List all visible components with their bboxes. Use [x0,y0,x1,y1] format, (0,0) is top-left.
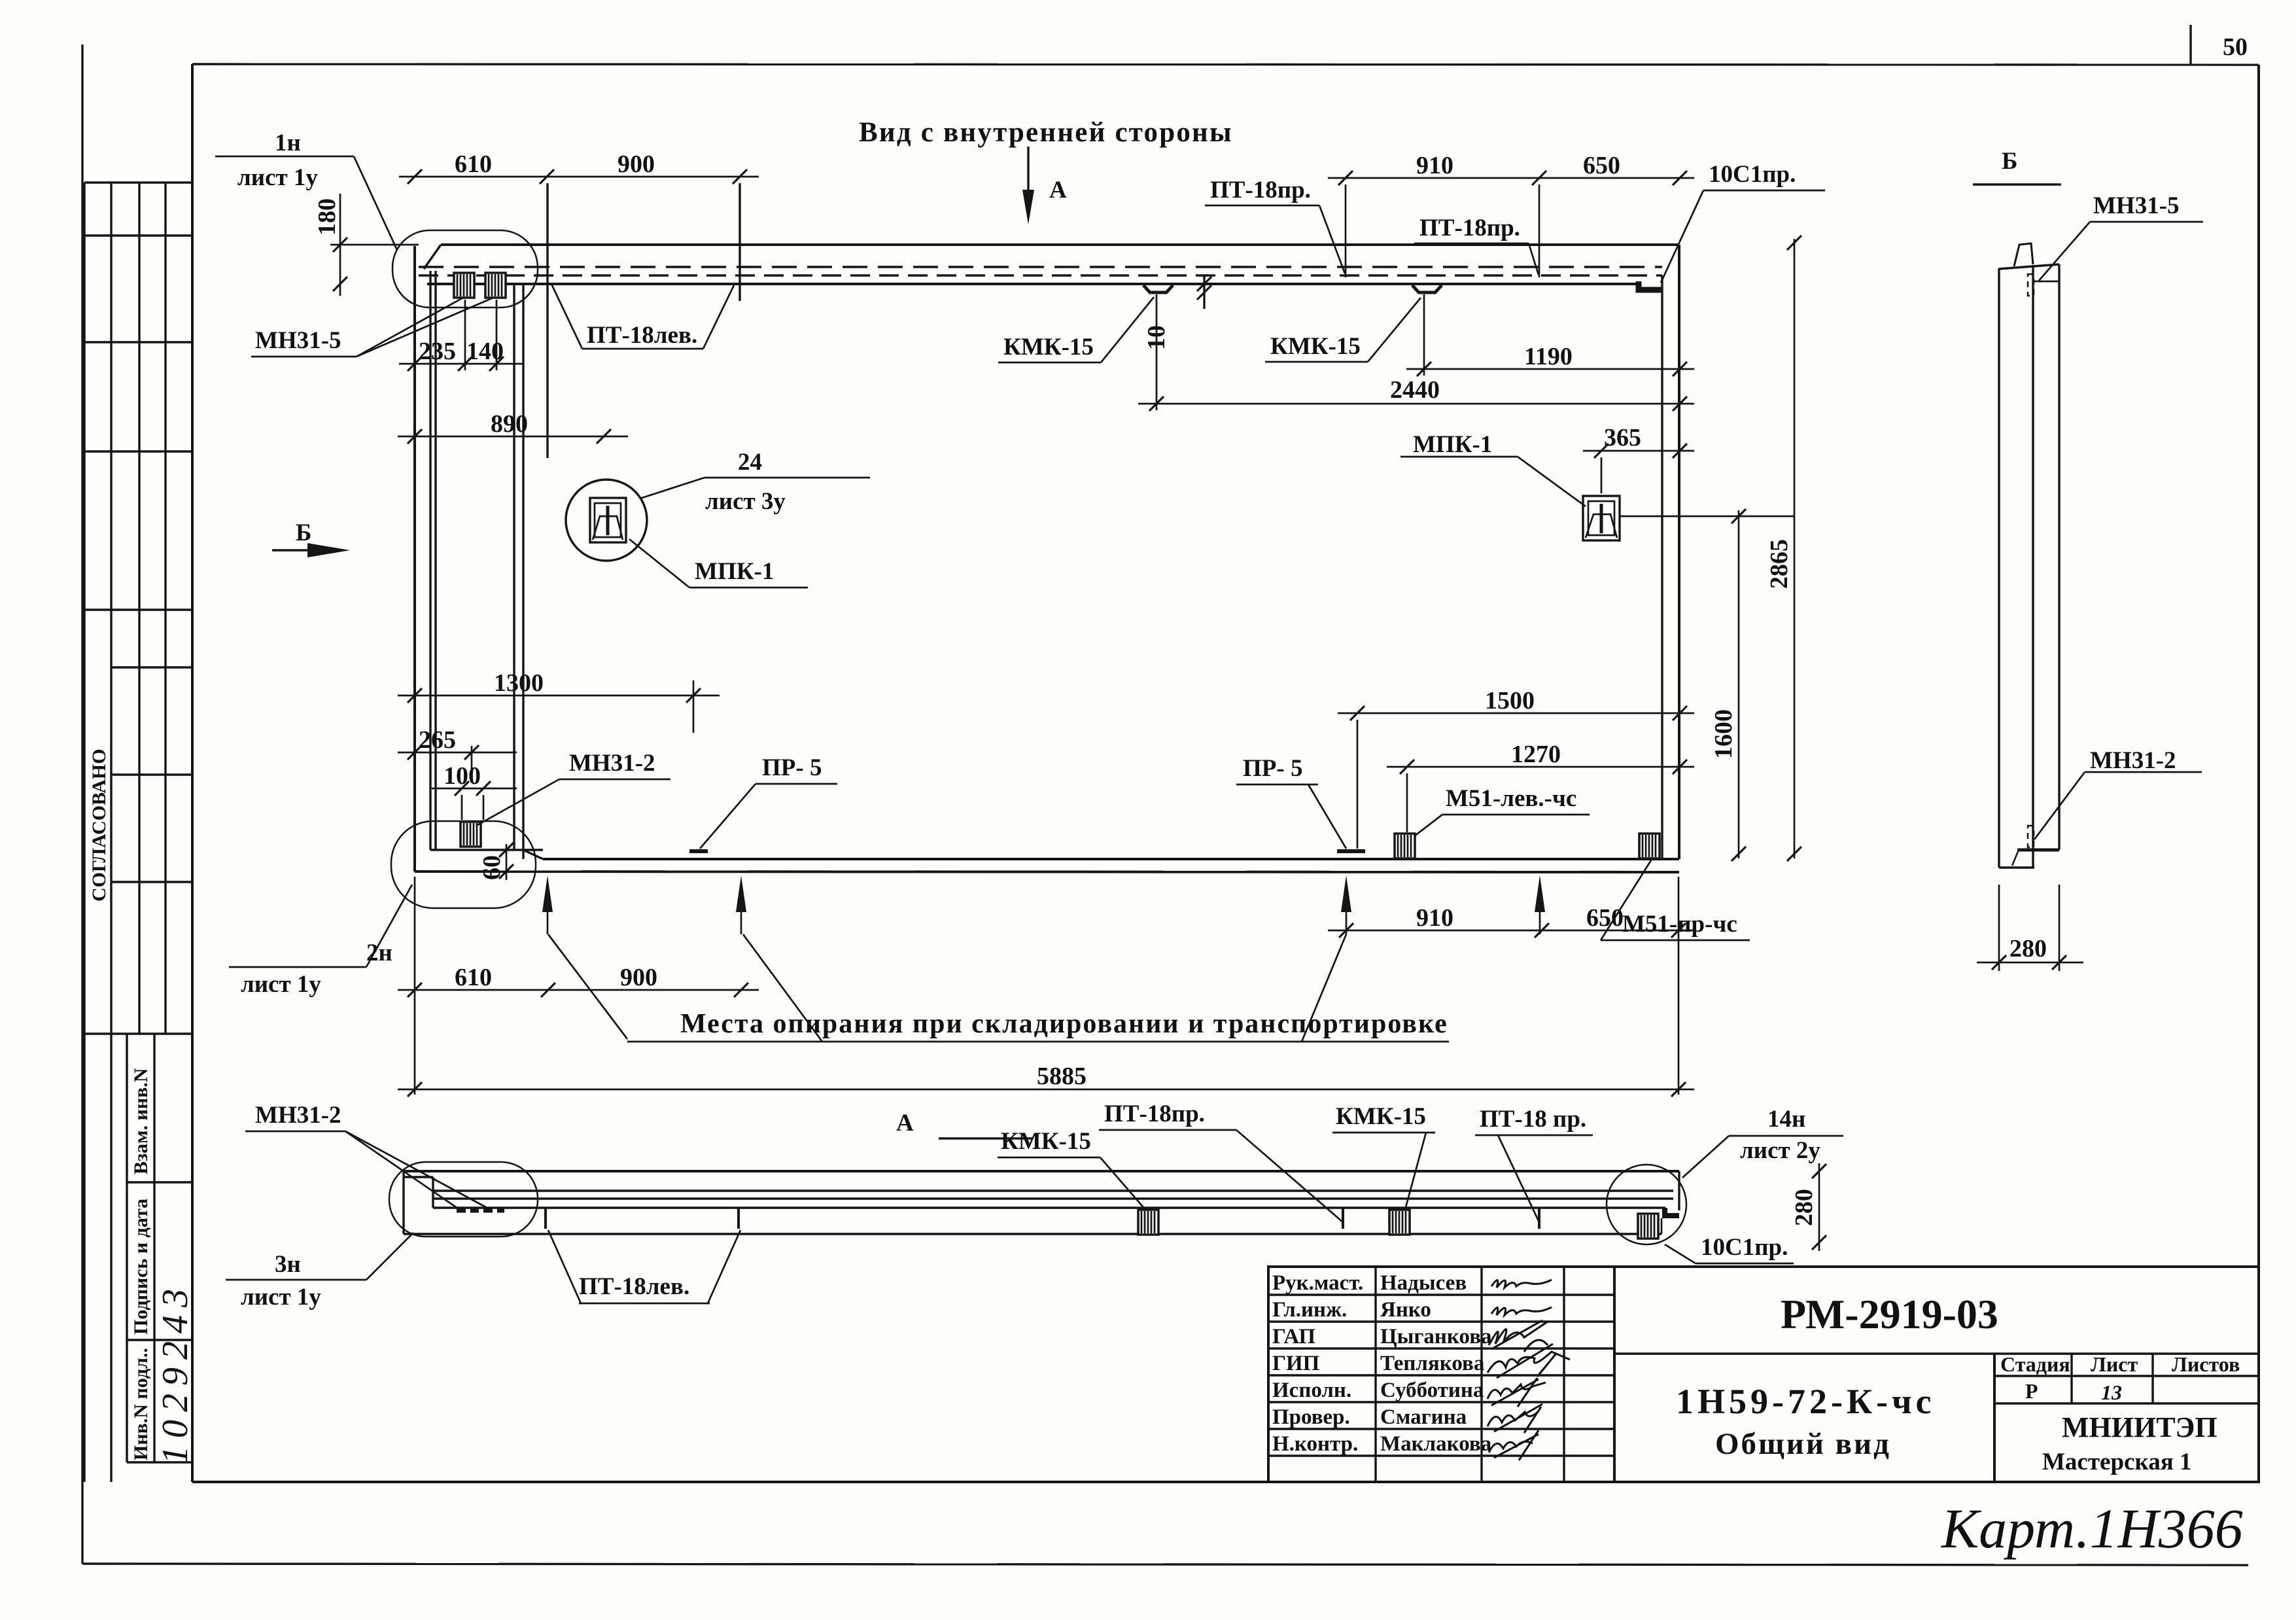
side element bottom [1999,866,2034,868]
corner inner horizontal [404,1176,433,1178]
label МПК-1 right [1400,431,1586,506]
support arrow 1 [542,875,553,934]
svg-text:Б: Б [296,519,311,546]
svg-text:280: 280 [1790,1189,1818,1226]
svg-text:лист 1у: лист 1у [241,971,321,998]
svg-text:1029243: 1029243 [155,1281,196,1464]
svg-text:ПТ-18пр.: ПТ-18пр. [1104,1101,1205,1127]
support arrow 2 [736,875,746,934]
svg-text:10С1пр.: 10С1пр. [1701,1234,1788,1261]
dim 280 right of strip [1790,1163,1826,1251]
svg-text:365: 365 [1604,424,1641,451]
label КМК-15 bottom view 1 [998,1128,1146,1210]
svg-text:МПК-1: МПК-1 [1413,431,1492,458]
svg-text:Лист: Лист [2091,1352,2138,1376]
panel top band bottom line [427,283,1639,285]
КМК-15 notch left [1143,285,1173,292]
extension line through band at 610 [546,183,548,458]
svg-text:650: 650 [1583,152,1620,179]
svg-text:КМК-15: КМК-15 [1001,1128,1091,1155]
lower stamp group box [126,1034,128,1462]
svg-text:Мастерская 1: Мастерская 1 [2042,1449,2191,1475]
svg-text:235: 235 [419,338,456,365]
svg-text:1270: 1270 [1511,741,1561,768]
dim 280 bottom [1977,885,2083,971]
svg-text:610: 610 [455,150,492,178]
main view [215,117,1825,1097]
svg-text:Листов: Листов [2172,1352,2240,1376]
dim 890 [398,410,628,444]
svg-text:А: А [1049,177,1067,203]
outer bottom edge [82,1564,2248,1565]
10 offset tick [1203,275,1205,309]
label МН31-2 right [2034,747,2202,839]
horizontal line from МПК-1 to 1600 dim [1620,516,1794,518]
svg-text:910: 910 [1416,904,1453,932]
balloon bottom-left corner 2н [391,821,536,908]
svg-text:Вид с внутренней стороны: Вид с внутренней стороны [859,117,1233,148]
signatures squiggles [1487,1280,1570,1460]
label ПТ-18пр second [1414,215,1539,275]
balloon top-left corner 1н [392,230,538,308]
dim 180 [313,194,419,296]
sidebar stamp grid columns [83,183,85,1482]
hidden dashed line lower [419,274,1662,276]
panel right edge outer [1678,245,1680,859]
svg-text:1Н59-72-К-чс: 1Н59-72-К-чс [1676,1382,1936,1421]
svg-text:ПР- 5: ПР- 5 [762,754,822,781]
svg-text:1н: 1н [275,130,301,156]
svg-text:Б: Б [2002,148,2017,175]
strip top line [404,1170,1679,1172]
label 14н лист 2у [1682,1106,1843,1178]
drawing frame bottom [192,1481,2259,1483]
sidebar stamp grid rows partial [111,666,192,668]
dim 1300 [398,669,720,733]
leader from arrow2 to text [743,934,822,1042]
svg-text:Карт.1Н366: Карт.1Н366 [1940,1497,2243,1560]
МПК-1 anchor right [1583,496,1620,540]
dim 235 140 [399,300,523,371]
side element right edge [2058,264,2060,850]
label МН31-2 bottom view [245,1102,492,1210]
side view [1973,148,2203,971]
dim 60 step [478,843,513,880]
drawing frame top [192,64,2259,65]
svg-text:2865: 2865 [1765,539,1793,589]
section arrow A (down) [1027,147,1029,196]
rib bottom step diagonal [523,850,543,859]
svg-text:ПТ-18лев.: ПТ-18лев. [579,1273,689,1300]
svg-text:МН31-5: МН31-5 [255,327,341,354]
anchor in balloon 10С1пр [1638,1214,1658,1239]
left rib bottom [430,849,543,851]
svg-text:М51-пр-чс: М51-пр-чс [1622,911,1737,938]
svg-text:ПТ-18пр.: ПТ-18пр. [1419,215,1520,241]
svg-text:лист 1у: лист 1у [237,164,318,191]
svg-text:890: 890 [491,410,528,438]
svg-text:КМК-15: КМК-15 [1003,334,1094,361]
dashed МН31-2 anchor [2028,826,2034,847]
svg-text:60: 60 [478,855,506,880]
side element left edge [1998,268,2000,868]
panel bottom edge [543,858,1679,860]
detail circle 24 лист 3у [566,480,647,561]
staff table verticals [1374,1267,1376,1482]
svg-text:Смагина: Смагина [1380,1405,1467,1429]
svg-text:ПТ-18пр.: ПТ-18пр. [1210,177,1311,203]
marker Б top [1973,148,2061,185]
svg-text:Провер.: Провер. [1272,1405,1350,1429]
staff table rows [1268,1294,1614,1295]
МН31-2 anchor bottom left [461,822,481,847]
svg-text:лист 1у: лист 1у [241,1284,321,1311]
dim 1600 vertical [1710,509,1746,861]
label 24 лист 3у [640,449,870,515]
bottom view [226,1101,1843,1311]
svg-text:МПК-1: МПК-1 [695,558,774,585]
label КМК-15 bottom view 2 [1332,1103,1435,1210]
svg-text:140: 140 [466,338,504,365]
left rib line c [513,284,515,850]
right corner of strip [1661,1171,1679,1234]
balloon 3н bottom view [389,1162,538,1237]
label 10С1пр bottom [1665,1234,1794,1263]
svg-text:1300: 1300 [494,669,544,697]
svg-text:50: 50 [2223,33,2248,61]
svg-text:Гл.инж.: Гл.инж. [1272,1298,1347,1322]
dim 910 650 bottom [1328,877,1694,1095]
svg-text:Стадия: Стадия [2000,1352,2070,1376]
dim 2865 vertical [1765,236,1801,861]
title block outline [1268,1267,2259,1482]
dim 1190 [1406,294,1694,376]
support arrow 3 [1341,875,1351,934]
svg-text:Теплякова: Теплякова [1380,1352,1484,1375]
svg-text:КМК-15: КМК-15 [1336,1103,1426,1130]
dashed anchor bar 2 [483,1207,504,1213]
panel top edge line [441,243,1679,246]
leader from arrow1 to text [548,934,627,1039]
strip left edge [402,1171,404,1234]
svg-text:610: 610 [455,964,492,991]
svg-text:13: 13 [2101,1381,2122,1404]
ПТ-18пр stroke 1 [1342,1208,1344,1229]
strip inner line a [433,1189,1673,1191]
panel right edge inner [1661,275,1663,859]
svg-text:14н: 14н [1767,1106,1805,1133]
staff roles [1272,1271,1492,1456]
svg-text:2440: 2440 [1390,376,1440,404]
svg-text:Места опирания при складирован: Места опирания при складировании и транс… [680,1009,1448,1039]
svg-text:СОГЛАСОВАНО: СОГЛАСОВАНО [88,748,110,902]
title block [1268,1267,2259,1560]
section marker Б left [272,519,350,557]
МН31-5 anchor 1 [454,273,474,298]
label МН31-5 [251,298,493,357]
svg-text:РМ-2919-03: РМ-2919-03 [1781,1291,1998,1337]
lifting loop on top [2014,243,2033,266]
dim 265 [398,726,517,782]
top right corner notch 10С1пр [1639,281,1662,290]
label МН31-5 right [2038,192,2203,281]
text места опирания [627,1009,1449,1042]
dim 610 900 top [399,150,759,184]
label ПТ-18пр bottom view 1 [1099,1101,1343,1222]
balloon 14н circle [1607,1165,1686,1244]
svg-text:280: 280 [2009,935,2047,962]
svg-text:КМК-15: КМК-15 [1270,333,1361,360]
svg-text:Цыганкова: Цыганкова [1380,1325,1492,1348]
svg-text:А: А [896,1110,914,1136]
svg-text:1600: 1600 [1710,709,1737,759]
ПТ-18лев stroke 2 [737,1208,740,1229]
svg-text:ГАП: ГАП [1272,1325,1315,1348]
bottom left slant [2012,850,2019,866]
svg-text:900: 900 [620,964,657,991]
svg-text:Р: Р [2025,1379,2038,1403]
svg-text:ПТ-18лев.: ПТ-18лев. [587,322,697,349]
panel bottom ledge [415,872,1679,872]
strip bottom line [404,1233,1661,1235]
label МПК-1 left [629,539,808,588]
label ПТ-18лев [551,284,734,349]
top-left corner bevel [424,245,441,269]
ПТ-18лев stroke 1 [544,1208,547,1229]
svg-text:3н: 3н [275,1251,301,1278]
dashed МН31-5 anchor [2028,274,2034,296]
extension line at 610+900 [739,183,740,301]
page number 50 [2189,25,2191,65]
svg-text:100: 100 [444,762,481,790]
dim 910 650 top right [1328,152,1694,277]
КМК-15 anchor bottom view [1138,1210,1158,1235]
svg-text:Маклакова: Маклакова [1380,1432,1491,1456]
svg-text:265: 265 [419,726,456,754]
dashed anchor bar 1 [457,1207,479,1213]
МН31-5 anchor 2 [485,273,506,298]
panel left edge [413,246,416,872]
svg-text:Взам. инв.N: Взам. инв.N [130,1068,152,1174]
svg-text:МН31-2: МН31-2 [569,750,655,777]
label ПТ-18пр first [1205,177,1345,273]
dim 2440 [1138,294,1694,411]
label ПР-5 left [689,754,837,851]
svg-text:180: 180 [313,198,341,236]
svg-text:ПТ-18 пр.: ПТ-18 пр. [1480,1106,1586,1133]
support arrow 4 [1535,875,1545,934]
svg-text:Исполн.: Исполн. [1272,1379,1351,1402]
label М51-пр-чс [1601,860,1750,940]
dim 1270 [1387,741,1694,832]
strip inner line b [433,1197,1673,1199]
МПК-1 anchor left [590,498,626,542]
ПТ-18пр stroke 2 [1538,1208,1540,1229]
svg-text:1190: 1190 [1524,343,1573,370]
svg-text:Рук.маст.: Рук.маст. [1272,1271,1363,1295]
svg-text:Инв.N подл..: Инв.N подл.. [130,1348,152,1460]
svg-text:910: 910 [1416,152,1453,179]
label 3н лист 1у [226,1233,413,1311]
svg-text:ГИП: ГИП [1272,1352,1320,1375]
outer left edge [81,44,83,1564]
svg-text:1500: 1500 [1485,687,1535,714]
svg-text:650: 650 [1586,904,1624,932]
leader from arrow3 to text [1302,934,1346,1042]
strip inner line c [433,1206,1665,1208]
label КМК-15 left [998,297,1154,362]
svg-text:МНИИТЭП: МНИИТЭП [2062,1411,2218,1443]
М51-пр anchor [1639,834,1660,858]
svg-text:Подпись и дата: Подпись и дата [130,1199,152,1335]
svg-text:Н.контр.: Н.контр. [1272,1432,1358,1456]
svg-text:МН31-2: МН31-2 [255,1102,341,1129]
dim 365 [1583,424,1694,493]
svg-text:лист 3у: лист 3у [705,488,786,515]
label 10С1пр [1661,161,1825,283]
divider under doc number [1614,1352,2259,1354]
svg-text:МН31-2: МН31-2 [2090,747,2176,774]
svg-text:900: 900 [617,150,655,178]
label 1н лист 1у [215,130,397,250]
left rib line b [434,271,436,850]
side rib bottom thick [2017,849,2059,852]
svg-text:Надысев: Надысев [1380,1271,1467,1295]
svg-text:5885: 5885 [1037,1063,1087,1090]
left sidebar [84,183,196,1482]
marker А bottom view [896,1110,1032,1138]
ПТ-18лев label trapezoid [548,1230,740,1303]
svg-text:лист 2у: лист 2у [1740,1137,1820,1164]
left rib line d [522,284,524,859]
label ПР-5 right [1236,755,1365,851]
svg-text:Янко: Янко [1380,1298,1431,1322]
hidden dashed line upper [419,266,1662,268]
drawing frame left [191,64,194,1482]
svg-text:10С1пр.: 10С1пр. [1709,161,1796,188]
dim 100 [432,762,517,820]
corner inner vertical [432,1177,434,1208]
left rib line a [429,271,431,850]
svg-text:ПР- 5: ПР- 5 [1243,755,1302,782]
dim 5885 [398,1063,1694,1097]
КМК-15 notch right [1412,285,1442,292]
svg-text:24: 24 [738,449,762,476]
svg-text:М51-лев.-чс: М51-лев.-чс [1446,785,1576,812]
side element top edge [1999,264,2059,269]
sidebar stamp grid rows full width [84,181,192,183]
label 2н лист 1у [229,885,412,998]
label ПТ-18пр bottom view 2 [1475,1106,1593,1222]
label КМК-15 right [1265,298,1421,362]
stage table [1994,1354,2259,1482]
dim 610 900 bottom [398,877,759,1095]
svg-text:Общий вид: Общий вид [1715,1427,1891,1461]
М51 anchor bottom view [1389,1210,1410,1235]
label М51-лев.-чс [1414,785,1590,836]
top right band line [2033,281,2059,283]
side element inner line [2032,265,2034,868]
drawing frame right [2257,65,2260,1482]
dim 1500 [1338,687,1694,849]
label МН31-2 main view [476,750,670,826]
svg-text:Субботина: Субботина [1380,1379,1484,1402]
svg-text:МН31-5: МН31-5 [2093,192,2180,219]
М51-лев anchor [1395,834,1415,858]
